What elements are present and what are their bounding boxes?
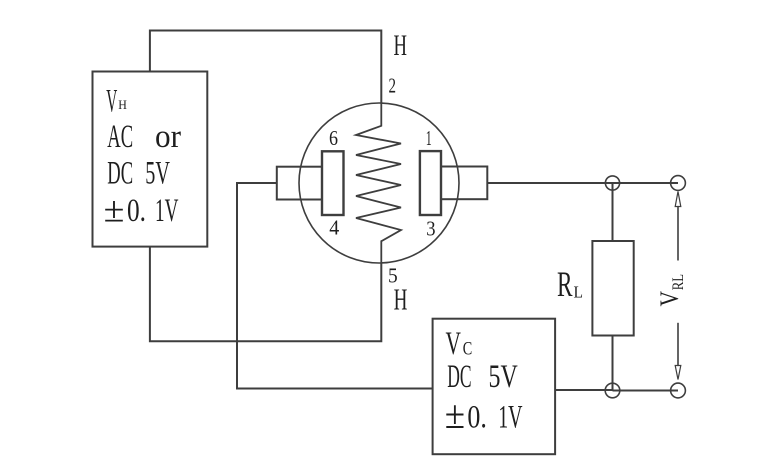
svg-text:0.: 0. bbox=[467, 400, 487, 436]
svg-text:5V: 5V bbox=[489, 359, 518, 395]
label H top heater terminal bbox=[394, 29, 408, 62]
left tab bbox=[277, 167, 322, 200]
wire VC box to terminal B1 bbox=[555, 389, 612, 391]
label AC or bbox=[107, 119, 181, 155]
svg-text:H: H bbox=[394, 282, 408, 317]
svg-text:±: ± bbox=[104, 190, 125, 230]
wire heater return pin 5 to VH box bottom bbox=[150, 247, 381, 342]
svg-text:6: 6 bbox=[329, 126, 338, 150]
pin number 4 bbox=[329, 216, 339, 240]
svg-text:AC: AC bbox=[107, 119, 133, 155]
svg-text:H: H bbox=[394, 29, 408, 62]
wire T1 down to resistor RL bbox=[612, 183, 614, 241]
svg-text:DC: DC bbox=[107, 156, 133, 192]
svg-text:R: R bbox=[557, 264, 573, 304]
label DC 5V bbox=[107, 156, 170, 192]
svg-text:H: H bbox=[118, 97, 127, 112]
label plus-minus 0.1V bbox=[104, 190, 179, 230]
wire left tab down to VC box bbox=[237, 183, 433, 389]
right tab bbox=[441, 167, 487, 200]
voltage source VC box bbox=[433, 319, 555, 455]
voltage source VH box bbox=[93, 72, 208, 247]
svg-text:DC: DC bbox=[447, 359, 471, 395]
heater coil zigzag bbox=[356, 103, 401, 263]
svg-text:2: 2 bbox=[389, 74, 397, 98]
pin number 6 bbox=[329, 126, 338, 150]
VRL measure arrow up bbox=[675, 192, 681, 261]
terminal T2 bbox=[671, 176, 686, 191]
left electrode plate bbox=[322, 151, 344, 215]
pin number 3 bbox=[426, 216, 435, 240]
svg-text:4: 4 bbox=[329, 216, 339, 240]
label H bottom heater terminal bbox=[394, 282, 408, 317]
pin number 2 bbox=[389, 74, 397, 98]
svg-text:3: 3 bbox=[426, 216, 435, 240]
svg-text:VRL: VRL bbox=[655, 274, 687, 307]
terminal B2 bbox=[671, 383, 686, 398]
label DC 5V in VC box bbox=[447, 359, 518, 395]
wire right tab to terminal T1 bbox=[487, 182, 612, 184]
svg-text:V: V bbox=[446, 326, 462, 362]
wire top loop from VH box top to heater pin 2 bbox=[150, 31, 381, 104]
svg-text:0.: 0. bbox=[127, 193, 146, 229]
pin number 1 bbox=[426, 126, 432, 150]
label VH bbox=[106, 84, 126, 120]
svg-text:1V: 1V bbox=[155, 193, 178, 229]
wire resistor RL to terminal B1 bbox=[612, 336, 614, 391]
resistor RL box bbox=[592, 241, 633, 336]
svg-text:1V: 1V bbox=[498, 400, 522, 436]
svg-text:±: ± bbox=[445, 392, 465, 437]
pin number 5 bbox=[388, 264, 398, 288]
svg-text:or: or bbox=[155, 119, 181, 155]
svg-text:L: L bbox=[574, 282, 584, 301]
sensor body circle bbox=[299, 103, 459, 263]
svg-text:1: 1 bbox=[426, 126, 432, 150]
right electrode plate bbox=[420, 151, 441, 215]
label RL bbox=[557, 264, 583, 304]
svg-text:5V: 5V bbox=[145, 156, 170, 192]
VRL measure arrow down bbox=[675, 323, 681, 380]
terminal B1 bbox=[605, 383, 620, 398]
label VC bbox=[446, 326, 473, 362]
terminal T1 bbox=[605, 176, 619, 190]
svg-text:C: C bbox=[463, 339, 473, 360]
label plus-minus 0.1V in VC box bbox=[445, 392, 523, 437]
wire T1 to T2 bbox=[613, 182, 679, 184]
svg-text:V: V bbox=[106, 84, 117, 120]
label VRL rotated bbox=[655, 274, 687, 307]
wire B1 to B2 bbox=[613, 390, 679, 392]
